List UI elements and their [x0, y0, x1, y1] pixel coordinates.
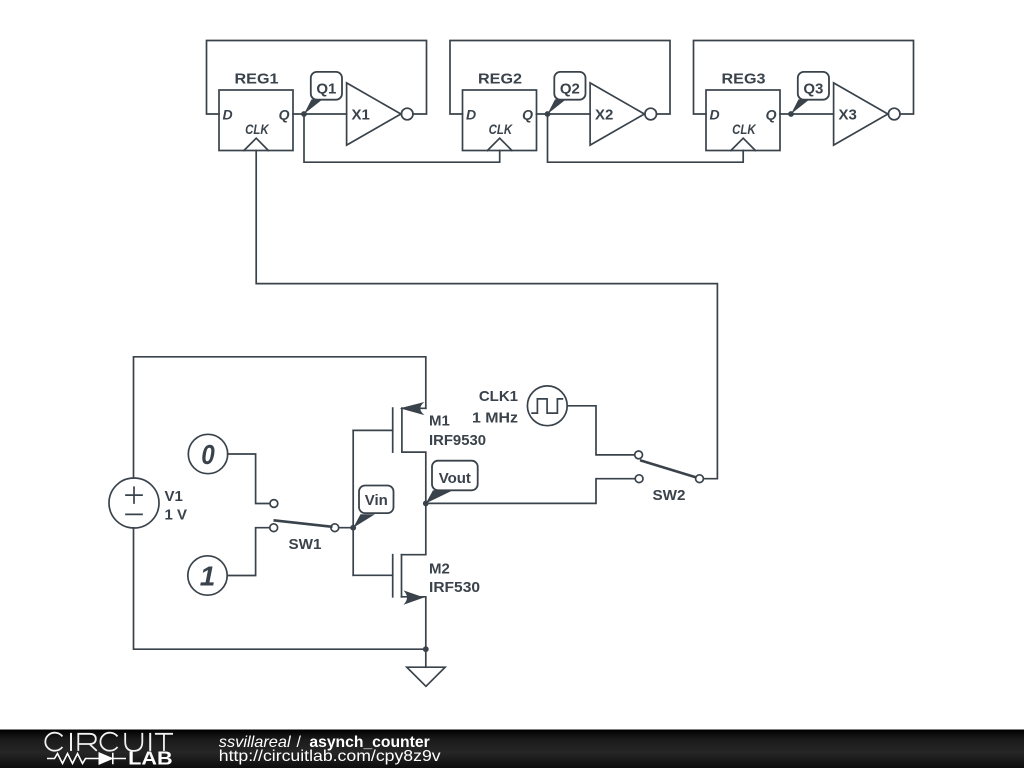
net flag Q1 — [304, 72, 342, 114]
wire: CLK1 output to SW2 upper throw — [567, 406, 634, 455]
svg-text:REG3: REG3 — [722, 71, 766, 88]
svg-text:Q: Q — [279, 107, 290, 123]
svg-text:CLK: CLK — [489, 121, 513, 137]
switch SW1 — [270, 500, 339, 532]
wire: logic 0 to SW1 upper throw — [228, 454, 270, 504]
svg-text:IRF9530: IRF9530 — [429, 432, 486, 449]
p-channel MOSFET M1 — [353, 403, 426, 504]
wire: X3 output feedback loop to REG3 D input — [694, 41, 914, 115]
svg-text:D: D — [466, 107, 476, 123]
designator/value label M2 IRF530 — [429, 560, 480, 596]
net flag Vin — [353, 486, 393, 528]
svg-text:http://circuitlab.com/cpy8z9v: http://circuitlab.com/cpy8z9v — [219, 748, 441, 765]
wire: X2 output feedback loop to REG2 D input — [450, 41, 670, 115]
svg-text:D: D — [710, 107, 720, 123]
svg-text:1 MHz: 1 MHz — [472, 409, 518, 426]
svg-text:X2: X2 — [595, 106, 613, 123]
svg-text:LAB: LAB — [128, 748, 173, 768]
flip-flop REG2 — [463, 90, 537, 151]
svg-text:SW1: SW1 — [289, 536, 322, 553]
junction node Q3 — [788, 111, 794, 117]
n-channel MOSFET M2 — [353, 503, 426, 649]
svg-text:CLK1: CLK1 — [479, 388, 518, 405]
svg-text:Vout: Vout — [439, 470, 471, 487]
svg-text:1 V: 1 V — [165, 507, 188, 524]
wire: Q2 node to REG3 CLK input — [548, 114, 744, 162]
svg-text:Q2: Q2 — [560, 81, 580, 98]
flip-flop REG1 — [219, 90, 293, 151]
svg-text:M2: M2 — [429, 560, 450, 577]
switch SW2 — [635, 451, 704, 483]
wire: Vin gate rail M1 gate to M2 gate — [352, 430, 354, 575]
wire: SW1 pole to Vin node — [339, 527, 353, 529]
net flag Vout — [426, 461, 478, 504]
junction node Q1 — [301, 111, 307, 117]
CircuitLab footer bar — [0, 730, 1024, 768]
svg-text:D: D — [223, 107, 233, 123]
CircuitLab logo wordmark CIRCUIT (hand-drawn thin letters) — [45, 733, 173, 751]
svg-text:REG1: REG1 — [235, 71, 279, 88]
svg-text:M1: M1 — [429, 413, 450, 430]
value label V1 1 V — [165, 488, 188, 524]
junction node Vout — [423, 501, 429, 507]
svg-text:X1: X1 — [352, 106, 370, 123]
svg-text:V1: V1 — [165, 488, 183, 505]
junction node Q2 — [545, 111, 551, 117]
svg-text:Q: Q — [522, 107, 533, 123]
footer credit text ssvillareal / asynch_counter — [219, 734, 430, 751]
flip-flop REG3 — [706, 90, 780, 151]
logic source 0 — [188, 434, 227, 473]
svg-text:X3: X3 — [839, 106, 857, 123]
junction node Vin — [350, 525, 356, 531]
svg-text:SW2: SW2 — [653, 487, 686, 504]
wire: V1 negative terminal via bottom rail to ground node — [134, 528, 426, 649]
wire: Q1 node to REG2 CLK input — [304, 114, 500, 162]
inverter X3 — [834, 83, 900, 145]
wire: REG1 CLK down to SW2 pole — [256, 151, 717, 479]
junction node at ground rail — [423, 646, 429, 652]
svg-text:CLK: CLK — [732, 121, 756, 137]
wire: REG2 Q output to X2 input — [537, 113, 591, 115]
net flag Q2 — [548, 72, 586, 114]
net flag Q3 — [791, 72, 829, 114]
inverter X2 — [590, 83, 656, 145]
wire: V1 positive terminal via top rail to M1 source — [134, 357, 426, 478]
ground symbol — [407, 649, 445, 686]
wire: REG1 Q output to X1 input — [293, 113, 347, 115]
svg-text:Q3: Q3 — [803, 81, 823, 98]
svg-text:Q1: Q1 — [316, 81, 336, 98]
CircuitLab logo resistor-diode glyph — [47, 753, 126, 764]
svg-text:Vin: Vin — [365, 492, 388, 509]
svg-text:0: 0 — [201, 439, 215, 470]
wire: Vout node to SW2 lower throw — [426, 479, 635, 504]
svg-text:Q: Q — [766, 107, 777, 123]
wire: logic 1 to SW1 lower throw — [227, 528, 269, 576]
logic source 1 — [188, 556, 227, 595]
wire: X1 output feedback loop to REG1 D input — [207, 41, 427, 115]
value label CLK1 1 MHz — [472, 388, 518, 426]
clock source CLK1 — [527, 386, 567, 426]
svg-text:REG2: REG2 — [478, 71, 522, 88]
svg-text:1: 1 — [200, 561, 216, 592]
designator/value label M1 IRF9530 — [429, 413, 486, 449]
voltage source V1 — [109, 478, 159, 528]
svg-text:IRF530: IRF530 — [429, 579, 480, 596]
inverter X1 — [347, 83, 413, 145]
svg-text:CLK: CLK — [245, 121, 269, 137]
wire: REG3 Q output to X3 input — [780, 113, 834, 115]
